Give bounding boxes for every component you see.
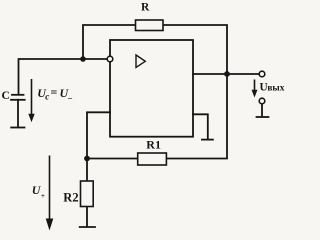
svg-text:=: = [50,85,57,99]
svg-text:–: – [67,93,72,102]
svg-text:R2: R2 [63,191,78,205]
svg-text:R: R [141,2,150,14]
svg-text:R1: R1 [146,138,161,152]
svg-text:+: + [41,191,45,200]
svg-text:C: C [2,90,10,102]
svg-text:вых: вых [267,82,285,92]
svg-text:c: c [45,91,49,101]
